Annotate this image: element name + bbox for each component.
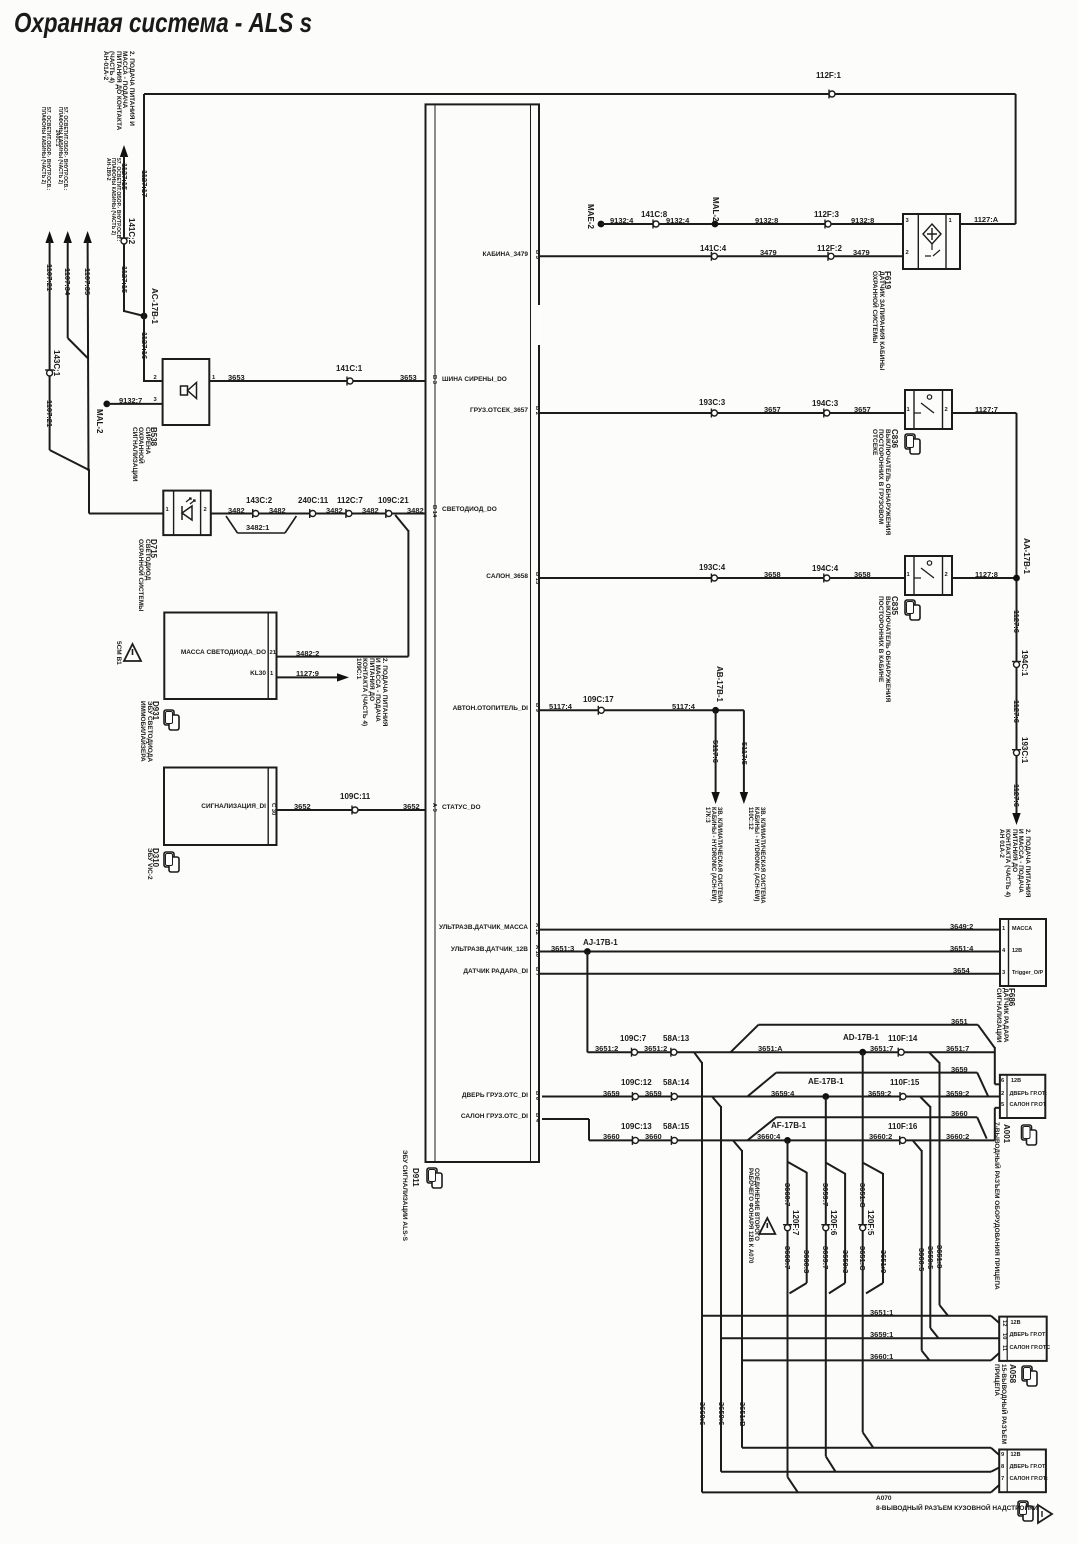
- arrow wire 1107:35: [83, 231, 91, 243]
- siren B538 box: [163, 359, 210, 425]
- arrow wire 1107:34: [64, 231, 72, 243]
- warning triangle at A070: [1038, 1505, 1052, 1523]
- connector 194C:1: [1014, 662, 1020, 668]
- node AF-17B-1: [784, 1137, 791, 1144]
- wire salon row to A070: [702, 1491, 991, 1493]
- wire door row to A070: [721, 1471, 991, 1473]
- wire 3651:1 row to A058: [702, 1315, 991, 1317]
- branch 3651:9 parallel: [863, 1163, 883, 1174]
- C835 switch symbol: [927, 561, 931, 565]
- connector 120F:5: [860, 1225, 866, 1231]
- connector 240C:11: [310, 511, 316, 517]
- bus inner line left: [434, 104, 436, 1162]
- warning triangle second work lamp: [759, 1218, 775, 1234]
- wire 3651:4 row (12V): [539, 951, 1000, 953]
- connector 141C:1: [347, 378, 353, 384]
- connector 120F:6: [823, 1225, 829, 1231]
- connector 141C:4: [711, 253, 717, 259]
- connector 193C:4: [711, 575, 717, 581]
- wire id callout 3482:1: [226, 516, 238, 533]
- connector 58A:13: [671, 1049, 677, 1055]
- C836 labels: [905, 434, 915, 449]
- connector 58A:14: [671, 1094, 677, 1100]
- connector 194C:3: [824, 410, 830, 416]
- F619 sensor symbol: [923, 224, 941, 244]
- connector 141C:8: [653, 221, 659, 227]
- ground MAE-2: [598, 221, 605, 228]
- arrow wire 1107:21: [45, 231, 53, 243]
- wire merge diagonals to D715 feed: [50, 450, 89, 470]
- wire 3482 D715 to bus: [211, 513, 426, 515]
- rail right corner down to F619: [1015, 94, 1017, 224]
- connector 193C:3: [711, 410, 717, 416]
- intrusion switch C835 box: [905, 556, 952, 595]
- branch 3651 to A001 12V: [731, 1025, 759, 1052]
- wire 3479 row: [539, 255, 903, 257]
- connector 120F:7: [785, 1225, 791, 1231]
- connector 109C:12: [632, 1094, 638, 1100]
- wire 5117:6 down arrow: [715, 710, 717, 792]
- wire 3657 row: [539, 412, 905, 414]
- wire 1127:15 vertical: [123, 155, 125, 312]
- connector 109C:11: [352, 807, 358, 813]
- node AJ-17B-1: [584, 948, 591, 955]
- D911 connector icon: [427, 1168, 437, 1183]
- A070 labels: [1018, 1501, 1028, 1516]
- wire 3658 row: [539, 577, 905, 579]
- connector 112F:2: [828, 253, 834, 259]
- wire 1127:17 vertical: [143, 94, 145, 317]
- arrow to AN-01A-2: [120, 145, 128, 157]
- connector 193C:1: [1014, 750, 1020, 756]
- wire 5117:5 down arrow: [743, 710, 745, 792]
- A001 labels: [1022, 1125, 1032, 1140]
- connector 143C:2: [253, 511, 259, 517]
- connector 109C:13: [632, 1137, 638, 1143]
- wire AD vertical 120F:5: [862, 1052, 864, 1432]
- wire jog to node AC-17B-1: [124, 311, 144, 316]
- connector 58A:15: [671, 1137, 677, 1143]
- branch 3651:1 down (left): [694, 1052, 702, 1063]
- body connector A070 box: [999, 1450, 1046, 1493]
- connector 194C:4: [824, 575, 830, 581]
- LED D715 box: [163, 491, 211, 535]
- connector 143C:1: [47, 370, 53, 376]
- wire 3660 row from bus: [542, 1118, 589, 1120]
- connector 109C:21: [386, 511, 392, 517]
- wire 3659 row: [542, 1096, 1000, 1098]
- wire 1127:9 arrow: [277, 676, 341, 678]
- wire 12V row to A070: [742, 1447, 991, 1449]
- wire 3652 D310 to bus: [277, 809, 426, 811]
- branch 3660:3 parallel: [788, 1162, 807, 1173]
- connector 110F:16: [900, 1137, 906, 1143]
- bus inner line right: [530, 104, 532, 1162]
- connector 141C:2: [121, 238, 127, 244]
- wire 3659:1 row to A058: [721, 1337, 999, 1339]
- top rail wire 112F:1: [144, 93, 1016, 95]
- ECU D310 box: [164, 768, 277, 846]
- trailer connector A001 box: [1000, 1075, 1045, 1118]
- branch 3659:3 parallel: [826, 1163, 845, 1174]
- branch 3660:1 down (left): [733, 1140, 742, 1151]
- wire AF vertical 120F:7: [787, 1140, 789, 1477]
- ground MAL-2 at B538: [103, 401, 110, 408]
- wire 1127:16 vertical to B538: [143, 316, 145, 382]
- connector 112F:1: [829, 91, 835, 97]
- wire 3660:1 row to A058: [742, 1359, 991, 1361]
- wire 9132 row: [601, 223, 903, 225]
- intrusion switch C836 box: [905, 390, 952, 429]
- D310 connector icon: [164, 852, 174, 867]
- wire AA-17B-1 vertical: [1016, 413, 1018, 814]
- connector 109C:7: [632, 1049, 638, 1055]
- node AD-17B-1: [859, 1049, 866, 1056]
- connector 112F:3: [825, 221, 831, 227]
- branch 3660 upper to A001: [747, 1117, 776, 1140]
- wire 3649:2 row (masса): [539, 929, 1000, 931]
- branch wire 3482:2 to D931: [395, 515, 408, 531]
- bus right edge gap segments: [537, 305, 542, 345]
- ECU D931 box: [164, 613, 276, 700]
- branch 3660:5 down: [913, 1140, 922, 1151]
- wire to A001 pin5: [994, 1108, 996, 1141]
- LED symbol: [182, 506, 192, 520]
- node AC-17B-1: [141, 313, 148, 320]
- trailer connector A058 box: [999, 1317, 1046, 1361]
- D931 connector icon: [164, 710, 174, 725]
- node AE-17B-1: [822, 1093, 829, 1100]
- wire AJ vertical to 3651:2 row: [586, 952, 588, 1053]
- A058 labels: [1022, 1366, 1032, 1381]
- node MAL-2 top: [712, 221, 719, 228]
- C835 labels: [905, 600, 915, 615]
- ECU bus D911 outline: [426, 104, 540, 1162]
- wire 5117:4 row: [539, 709, 744, 711]
- branch 3659 upper to A001: [747, 1073, 776, 1097]
- warning triangle 5CM B1: [124, 644, 141, 661]
- wire 1127:8: [952, 577, 1017, 579]
- connector 109C:17: [598, 707, 604, 713]
- wire AE vertical 120F:6: [825, 1097, 827, 1457]
- radar sensor F686 box: [1000, 919, 1046, 986]
- connector 110F:14: [898, 1049, 904, 1055]
- branch 3659:5 down: [920, 1097, 930, 1108]
- title: [14, 9, 312, 37]
- C836 switch symbol: [927, 395, 931, 399]
- node AA-17B-1: [1013, 575, 1020, 582]
- branch 3651:8 down: [929, 1052, 940, 1063]
- wire to D715 pin1: [88, 469, 90, 514]
- speaker icon: [181, 386, 188, 395]
- wire 3651:2 row: [587, 1051, 994, 1053]
- cab lock sensor F619 box: [903, 214, 960, 269]
- node AB-17B-1: [712, 707, 719, 714]
- connector 112C:7: [346, 511, 352, 517]
- wire 1127:7: [952, 412, 1017, 414]
- branch 3659:1 down (left): [712, 1097, 721, 1108]
- wire 3653 B538 to bus: [209, 380, 425, 382]
- arrow down AA net: [1012, 813, 1020, 825]
- wire 3654 row (trigger): [539, 973, 1000, 975]
- connector 110F:15: [900, 1094, 906, 1100]
